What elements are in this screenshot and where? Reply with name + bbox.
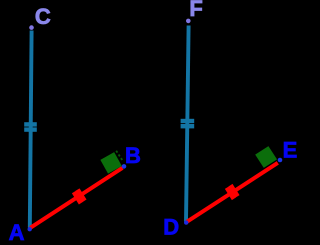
double tick on DE (227, 185, 238, 199)
segment AB (red) (30, 168, 122, 228)
point B dot (122, 164, 127, 169)
green square on DE near E (255, 146, 277, 168)
svg-text:F: F (189, 0, 202, 21)
dashed green edge outside square (116, 151, 122, 161)
svg-text:E: E (283, 137, 298, 162)
double tick on AC (24, 124, 37, 129)
svg-text:A: A (9, 220, 25, 245)
segment DE (red) (187, 163, 278, 222)
svg-text:B: B (125, 143, 141, 168)
segment DF (blue) (186, 26, 189, 222)
point E dot (278, 158, 283, 163)
point D dot (184, 220, 188, 224)
point F dot (186, 19, 191, 24)
double tick on AB (74, 190, 85, 204)
double tick on DF (181, 121, 195, 126)
svg-text:D: D (163, 214, 179, 239)
green square on AB near B (100, 152, 121, 173)
point A dot (28, 227, 32, 231)
segment AC (blue) (30, 31, 32, 228)
svg-text:C: C (35, 4, 51, 29)
point C dot (29, 25, 34, 30)
